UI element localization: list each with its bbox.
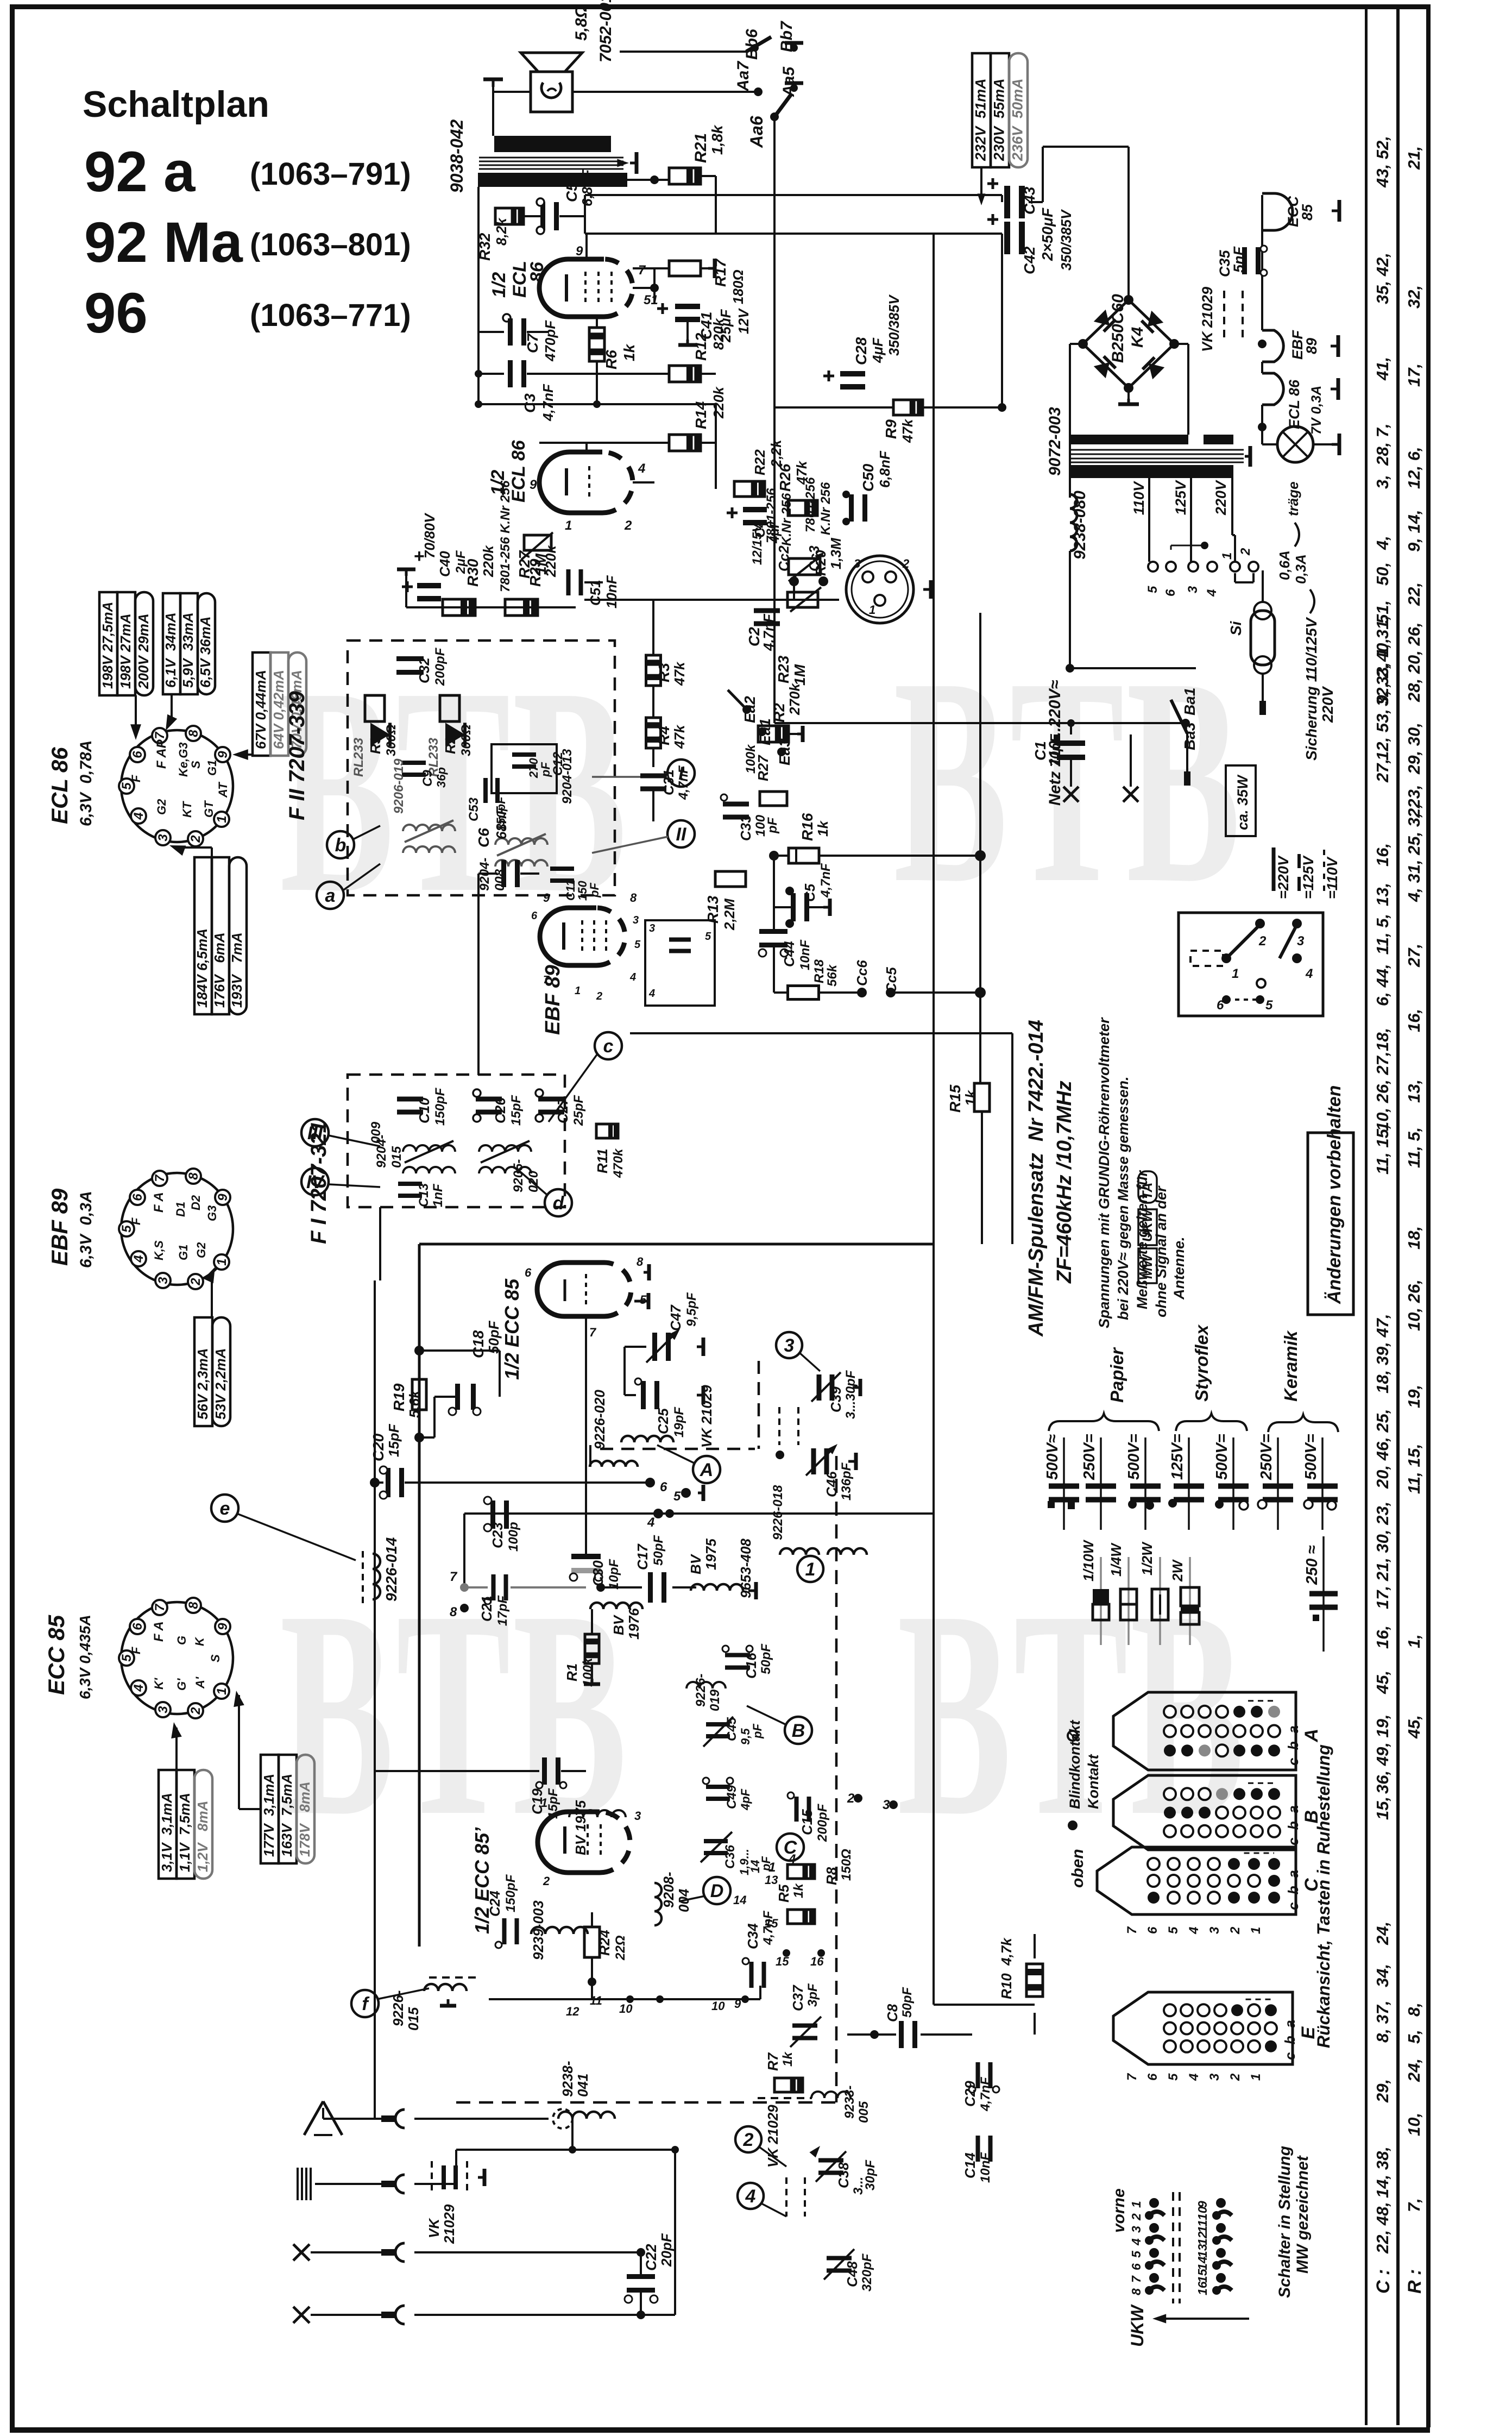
svg-text:=110V: =110V xyxy=(1324,856,1340,899)
svg-text:9: 9 xyxy=(530,478,537,492)
svg-text:11: 11 xyxy=(1195,2220,1209,2233)
svg-text:C :: C : xyxy=(1373,2269,1394,2294)
svg-text:250V=: 250V= xyxy=(1258,1434,1275,1480)
svg-text:41,: 41, xyxy=(1373,357,1392,381)
svg-text:F II 7207-339: F II 7207-339 xyxy=(285,690,309,820)
svg-text:45,: 45, xyxy=(1373,1671,1392,1694)
svg-text:5: 5 xyxy=(1166,1926,1181,1934)
svg-text:11, 15,: 11, 15, xyxy=(1404,1443,1423,1494)
svg-text:5,9V 33mA: 5,9V 33mA xyxy=(180,612,196,688)
svg-text:R3: R3 xyxy=(656,663,672,682)
svg-text:1,8k: 1,8k xyxy=(709,124,726,155)
svg-text:F: F xyxy=(129,1217,143,1225)
svg-text:C3: C3 xyxy=(521,393,538,413)
svg-text:R1: R1 xyxy=(564,1663,580,1681)
svg-text:7801-256 K.Nr 256: 7801-256 K.Nr 256 xyxy=(498,480,513,592)
svg-text:2: 2 xyxy=(188,1707,203,1715)
svg-text:150pF: 150pF xyxy=(503,1874,518,1912)
svg-text:R16: R16 xyxy=(799,813,816,841)
svg-text:7: 7 xyxy=(153,1603,167,1611)
svg-text:e: e xyxy=(220,1498,230,1519)
svg-text:C34: C34 xyxy=(745,1923,761,1949)
svg-text:22Ω: 22Ω xyxy=(613,1935,628,1961)
svg-text:1: 1 xyxy=(1249,2074,1263,2081)
svg-text:C10: C10 xyxy=(416,1097,432,1123)
svg-text:1k: 1k xyxy=(962,1090,979,1106)
svg-text:Spannungen mit GRUNDIG-Röhrenv: Spannungen mit GRUNDIG-Röhrenvoltmeter xyxy=(1096,1017,1112,1328)
svg-text:C52: C52 xyxy=(563,174,580,202)
svg-text:12, 6,: 12, 6, xyxy=(1404,447,1423,489)
svg-text:22, 48,: 22, 48, xyxy=(1373,2202,1392,2254)
svg-text:2×50μF: 2×50μF xyxy=(1039,208,1056,261)
svg-text:5: 5 xyxy=(1145,586,1160,593)
svg-text:S: S xyxy=(189,761,203,769)
svg-text:5,6k: 5,6k xyxy=(406,1390,423,1418)
svg-text:C24: C24 xyxy=(487,1891,503,1917)
svg-text:BV: BV xyxy=(610,1614,627,1635)
svg-text:34,: 34, xyxy=(1373,1964,1392,1987)
svg-text:C53: C53 xyxy=(467,797,481,821)
svg-text:8: 8 xyxy=(450,1605,457,1619)
svg-text:R14: R14 xyxy=(692,401,709,429)
svg-text:4,: 4, xyxy=(1373,536,1392,550)
svg-text:6: 6 xyxy=(660,1480,667,1495)
svg-text:9206-019: 9206-019 xyxy=(392,758,406,814)
svg-text:1M: 1M xyxy=(791,664,808,686)
svg-text:86: 86 xyxy=(527,261,547,282)
svg-text:C51: C51 xyxy=(587,580,603,606)
svg-text:18, 39, 47,: 18, 39, 47, xyxy=(1373,1314,1392,1393)
svg-text:2,2k: 2,2k xyxy=(768,439,784,468)
svg-text:18,: 18, xyxy=(1373,1028,1392,1051)
svg-text:6,8nF: 6,8nF xyxy=(579,169,595,206)
svg-text:1976: 1976 xyxy=(626,1608,642,1640)
svg-text:R21: R21 xyxy=(692,133,710,163)
svg-text:2,2M: 2,2M xyxy=(721,898,738,931)
svg-text:20, 46, 25,: 20, 46, 25, xyxy=(1373,1409,1392,1489)
svg-text:3: 3 xyxy=(854,557,860,570)
svg-text:A: A xyxy=(1301,1729,1322,1743)
svg-text:177V 3,1mA: 177V 3,1mA xyxy=(261,1774,277,1857)
svg-text:1: 1 xyxy=(1232,966,1239,981)
svg-text:G: G xyxy=(175,1636,188,1645)
svg-text:24,: 24, xyxy=(1373,1922,1392,1945)
svg-text:f: f xyxy=(362,1994,370,2014)
svg-text:10nF: 10nF xyxy=(798,939,812,970)
svg-text:470pF: 470pF xyxy=(542,320,558,362)
svg-text:GT: GT xyxy=(202,800,216,818)
svg-text:IV: IV xyxy=(306,1172,325,1192)
svg-text:500V≈: 500V≈ xyxy=(1044,1434,1061,1480)
svg-text:1,2V 8mA: 1,2V 8mA xyxy=(194,1800,211,1872)
svg-text:G1: G1 xyxy=(205,760,219,776)
svg-text:92 a: 92 a xyxy=(84,140,196,204)
svg-text:AM/FM-Spulensatz Nr 7422.-014: AM/FM-Spulensatz Nr 7422.-014 xyxy=(1025,1020,1048,1337)
svg-text:F A: F A xyxy=(152,1192,166,1213)
svg-text:9,5pF: 9,5pF xyxy=(684,1292,699,1327)
svg-text:pF: pF xyxy=(765,817,780,834)
svg-text:b: b xyxy=(335,835,346,856)
svg-text:3: 3 xyxy=(1207,1926,1222,1934)
svg-text:C32: C32 xyxy=(416,657,432,683)
svg-text:7: 7 xyxy=(1125,1926,1139,1934)
svg-text:5: 5 xyxy=(634,939,641,951)
svg-text:4: 4 xyxy=(131,1684,146,1692)
svg-text:1: 1 xyxy=(215,815,229,823)
svg-text:9238-080: 9238-080 xyxy=(1071,491,1089,560)
svg-text:3: 3 xyxy=(634,1809,641,1823)
svg-text:Cc6: Cc6 xyxy=(854,960,870,986)
svg-text:10nF: 10nF xyxy=(603,575,620,608)
svg-text:16,: 16, xyxy=(1373,843,1392,867)
svg-text:Aa5: Aa5 xyxy=(780,66,798,97)
svg-text:35, 42,: 35, 42, xyxy=(1373,253,1392,304)
svg-text:A: A xyxy=(700,1460,714,1480)
svg-text:250V=: 250V= xyxy=(1081,1434,1098,1480)
svg-text:7: 7 xyxy=(153,1174,167,1182)
svg-text:8: 8 xyxy=(186,730,201,737)
svg-text:4,7nF: 4,7nF xyxy=(676,765,691,800)
svg-text:12/15V: 12/15V xyxy=(750,523,765,565)
svg-text:193V 7mA: 193V 7mA xyxy=(229,932,245,1008)
svg-text:3: 3 xyxy=(156,1277,171,1284)
svg-text:K: K xyxy=(193,1636,206,1646)
svg-text:14: 14 xyxy=(1195,2256,1209,2270)
svg-text:21029: 21029 xyxy=(441,2204,457,2244)
svg-text:C43: C43 xyxy=(1021,186,1038,215)
svg-text:6: 6 xyxy=(531,910,538,922)
svg-text:7: 7 xyxy=(1129,2275,1143,2283)
svg-text:9226-014: 9226-014 xyxy=(383,1537,400,1602)
svg-text:3...30pF: 3...30pF xyxy=(843,1370,858,1419)
svg-text:3: 3 xyxy=(633,914,639,926)
svg-text:9239-003: 9239-003 xyxy=(530,1900,546,1960)
svg-text:B250C60: B250C60 xyxy=(1109,294,1127,363)
svg-text:1975: 1975 xyxy=(703,1539,719,1570)
svg-text:136pF: 136pF xyxy=(839,1462,854,1500)
svg-text:220k: 220k xyxy=(543,545,559,577)
svg-text:12, 53, 9, 33, 1, 31,: 12, 53, 9, 33, 1, 31, xyxy=(1373,616,1392,761)
svg-text:C18: C18 xyxy=(470,1330,487,1358)
svg-text:Cc2: Cc2 xyxy=(776,545,792,572)
svg-text:96: 96 xyxy=(84,281,148,345)
svg-text:R18: R18 xyxy=(812,959,827,983)
svg-text:C40: C40 xyxy=(437,551,453,577)
svg-text:1,: 1, xyxy=(1404,1634,1423,1648)
svg-text:Rückansicht, Tasten in Ruheste: Rückansicht, Tasten in Ruhestellung xyxy=(1314,1744,1333,2048)
svg-text:2: 2 xyxy=(1228,1926,1243,1935)
svg-text:II: II xyxy=(676,824,687,845)
svg-text:R29: R29 xyxy=(527,558,544,587)
svg-text:17pF: 17pF xyxy=(495,1595,510,1626)
svg-text:C23: C23 xyxy=(489,1522,506,1548)
svg-text:500V=: 500V= xyxy=(1302,1434,1320,1480)
svg-text:(1063–771): (1063–771) xyxy=(250,298,411,333)
svg-text:015: 015 xyxy=(405,2007,421,2031)
svg-text:6,1V 34mA: 6,1V 34mA xyxy=(162,612,179,688)
svg-text:ohne Signal an der: ohne Signal an der xyxy=(1153,1185,1169,1317)
svg-text:178V 8mA: 178V 8mA xyxy=(297,1781,313,1857)
svg-text:10nF: 10nF xyxy=(978,2152,993,2183)
svg-text:3: 3 xyxy=(1297,934,1305,949)
svg-text:125V=: 125V= xyxy=(1169,1434,1186,1480)
svg-text:3: 3 xyxy=(1186,586,1200,593)
svg-text:2: 2 xyxy=(1258,934,1267,949)
svg-text:=220V: =220V xyxy=(1275,855,1291,899)
svg-text:VK 21029: VK 21029 xyxy=(698,1385,715,1448)
svg-text:5: 5 xyxy=(705,931,711,943)
svg-text:C48: C48 xyxy=(844,2261,860,2287)
svg-text:041: 041 xyxy=(575,2074,591,2097)
svg-text:7,: 7, xyxy=(1404,2198,1423,2212)
svg-text:A': A' xyxy=(193,1677,207,1689)
svg-text:10, 26,: 10, 26, xyxy=(1404,1279,1423,1331)
svg-text:47k: 47k xyxy=(793,460,810,485)
svg-text:0,3A: 0,3A xyxy=(1293,554,1309,584)
svg-text:BV 1975: BV 1975 xyxy=(572,1800,589,1855)
svg-text:150Ω: 150Ω xyxy=(839,1849,854,1881)
svg-text:c b a: c b a xyxy=(1285,1725,1301,1766)
svg-text:3: 3 xyxy=(156,1706,171,1713)
svg-text:6: 6 xyxy=(1163,589,1178,597)
svg-text:C37: C37 xyxy=(790,1985,806,2011)
svg-text:13: 13 xyxy=(1195,2244,1209,2258)
svg-text:9: 9 xyxy=(216,1623,230,1630)
svg-text:7V 0,3A: 7V 0,3A xyxy=(1309,386,1324,435)
svg-text:4: 4 xyxy=(638,461,645,476)
svg-text:C20: C20 xyxy=(370,1433,387,1461)
svg-text:11, 15,: 11, 15, xyxy=(1373,1124,1392,1175)
svg-text:8,: 8, xyxy=(1404,2002,1423,2017)
svg-text:VK 21029: VK 21029 xyxy=(765,2105,781,2168)
svg-text:220V: 220V xyxy=(1319,686,1336,723)
svg-text:51: 51 xyxy=(644,293,658,307)
svg-text:200pF: 200pF xyxy=(433,647,448,686)
svg-text:4: 4 xyxy=(1205,589,1219,597)
svg-text:4: 4 xyxy=(1129,2238,1143,2246)
svg-text:BV: BV xyxy=(688,1553,704,1574)
svg-text:R17: R17 xyxy=(712,258,729,287)
svg-text:5: 5 xyxy=(1166,2073,1181,2081)
svg-text:250 ≈: 250 ≈ xyxy=(1303,1546,1321,1585)
svg-text:4,7nF: 4,7nF xyxy=(540,384,556,422)
svg-text:12: 12 xyxy=(566,2005,579,2018)
svg-text:7: 7 xyxy=(638,263,646,278)
svg-text:1: 1 xyxy=(1249,1927,1263,1934)
svg-text:R27: R27 xyxy=(755,755,771,781)
svg-text:6,3V 0,3A: 6,3V 0,3A xyxy=(77,1191,95,1268)
svg-text:G2: G2 xyxy=(194,1242,208,1258)
svg-text:R2: R2 xyxy=(771,703,787,723)
svg-text:13: 13 xyxy=(765,1873,778,1887)
svg-text:C7: C7 xyxy=(524,333,541,353)
svg-text:C1: C1 xyxy=(1032,741,1049,761)
svg-text:14, 38,: 14, 38, xyxy=(1373,2146,1392,2198)
svg-text:36, 49, 19,: 36, 49, 19, xyxy=(1373,1714,1392,1794)
svg-text:(1063–801): (1063–801) xyxy=(250,227,411,262)
svg-text:2: 2 xyxy=(188,1278,203,1286)
svg-text:K': K' xyxy=(152,1678,166,1690)
svg-text:8: 8 xyxy=(1129,2288,1143,2295)
svg-text:47k: 47k xyxy=(671,724,688,749)
svg-text:9: 9 xyxy=(734,1997,741,2011)
svg-text:Si: Si xyxy=(1227,620,1244,636)
svg-text:pF: pF xyxy=(588,883,601,898)
svg-text:8: 8 xyxy=(186,1172,201,1180)
svg-text:21,: 21, xyxy=(1404,146,1423,170)
svg-text:7: 7 xyxy=(1125,2073,1139,2081)
svg-text:1/2 ECC 85: 1/2 ECC 85 xyxy=(501,1278,523,1380)
svg-text:2: 2 xyxy=(1238,548,1253,556)
svg-text:27,: 27, xyxy=(1373,759,1392,783)
svg-text:220k: 220k xyxy=(480,545,496,577)
svg-text:020: 020 xyxy=(526,1170,541,1192)
svg-text:D2: D2 xyxy=(189,1195,203,1210)
svg-text:150pF: 150pF xyxy=(433,1087,448,1126)
svg-text:92 Ma: 92 Ma xyxy=(84,211,243,274)
svg-text:4μF: 4μF xyxy=(870,337,886,363)
svg-text:5: 5 xyxy=(1129,2250,1143,2258)
svg-text:8: 8 xyxy=(637,1255,644,1269)
svg-text:25pF: 25pF xyxy=(571,1095,586,1126)
svg-text:019: 019 xyxy=(708,1689,722,1711)
svg-text:32,: 32, xyxy=(1404,285,1423,309)
svg-text:24,: 24, xyxy=(1404,2058,1423,2082)
svg-text:6: 6 xyxy=(1145,1926,1160,1934)
svg-text:45,: 45, xyxy=(1404,1715,1423,1739)
svg-text:4: 4 xyxy=(131,1255,146,1263)
svg-text:Schaltplan: Schaltplan xyxy=(83,84,269,125)
svg-text:22,: 22, xyxy=(1404,582,1423,606)
svg-text:12: 12 xyxy=(1195,2231,1209,2245)
svg-text:1/2 ECC 85’: 1/2 ECC 85’ xyxy=(471,1827,493,1934)
svg-text:Aa6: Aa6 xyxy=(747,116,766,148)
svg-text:180Ω: 180Ω xyxy=(730,269,746,304)
svg-text:pF: pF xyxy=(751,1724,764,1739)
svg-text:1k: 1k xyxy=(815,820,831,837)
svg-text:005: 005 xyxy=(856,2101,871,2123)
svg-text:C6: C6 xyxy=(475,828,492,847)
svg-text:R7: R7 xyxy=(765,2052,781,2071)
svg-text:100p: 100p xyxy=(506,1522,521,1552)
svg-text:C45: C45 xyxy=(724,1717,739,1741)
svg-text:S: S xyxy=(209,1654,222,1662)
svg-text:43, 52,: 43, 52, xyxy=(1373,136,1392,188)
svg-text:2: 2 xyxy=(1228,2073,1243,2081)
svg-text:4, 31, 25, 3, 23,: 4, 31, 25, 3, 23, xyxy=(1404,785,1423,902)
svg-text:C42: C42 xyxy=(1021,246,1038,274)
svg-text:10: 10 xyxy=(619,2002,633,2016)
svg-text:G2: G2 xyxy=(155,799,168,815)
svg-text:R30: R30 xyxy=(464,558,481,587)
svg-text:6, 44, 11, 5,: 6, 44, 11, 5, xyxy=(1373,914,1392,1006)
svg-text:Papier: Papier xyxy=(1107,1347,1127,1403)
svg-text:C30: C30 xyxy=(590,1560,606,1586)
svg-text:110V: 110V xyxy=(1131,481,1147,515)
svg-text:4,7nF: 4,7nF xyxy=(818,863,833,898)
svg-text:2: 2 xyxy=(543,1874,550,1888)
svg-text:3,1V 3,1mA: 3,1V 3,1mA xyxy=(159,1793,175,1872)
svg-text:R5: R5 xyxy=(776,1884,792,1903)
svg-text:C49: C49 xyxy=(724,1785,739,1809)
svg-text:K4: K4 xyxy=(1129,327,1146,348)
svg-text:9, 14,: 9, 14, xyxy=(1404,510,1423,552)
svg-text:MW gezeichnet: MW gezeichnet xyxy=(1294,2155,1312,2274)
svg-text:1: 1 xyxy=(1129,2201,1143,2208)
svg-text:11, 5,: 11, 5, xyxy=(1404,1127,1423,1168)
svg-text:9226-: 9226- xyxy=(694,1674,708,1707)
svg-text:ECL 86: ECL 86 xyxy=(1286,379,1302,429)
svg-text:Bb6: Bb6 xyxy=(743,29,761,60)
svg-text:6: 6 xyxy=(130,1194,145,1201)
svg-text:C5: C5 xyxy=(802,883,818,902)
svg-text:C21: C21 xyxy=(478,1596,495,1622)
svg-text:C39: C39 xyxy=(828,1386,844,1412)
svg-text:17,: 17, xyxy=(1404,363,1423,387)
svg-text:89: 89 xyxy=(1303,338,1320,354)
svg-text:28, 20, 26,: 28, 20, 26, xyxy=(1404,622,1423,702)
svg-text:56k: 56k xyxy=(825,964,840,987)
svg-text:16,: 16, xyxy=(1373,1625,1392,1649)
svg-text:1: 1 xyxy=(215,1687,229,1694)
svg-text:1: 1 xyxy=(541,1796,547,1810)
svg-text:C31: C31 xyxy=(660,769,677,795)
svg-text:6: 6 xyxy=(130,1623,145,1630)
svg-text:B: B xyxy=(792,1721,805,1741)
svg-text:19pF: 19pF xyxy=(672,1407,686,1437)
svg-text:50pF: 50pF xyxy=(759,1643,773,1674)
svg-text:350/385V: 350/385V xyxy=(1058,209,1074,271)
svg-text:200pF: 200pF xyxy=(815,1803,830,1842)
svg-text:ECC 85: ECC 85 xyxy=(43,1615,69,1695)
svg-text:F AP: F AP xyxy=(154,739,169,769)
svg-text:500V=: 500V= xyxy=(1125,1434,1143,1480)
svg-text:Cc3: Cc3 xyxy=(806,545,822,572)
svg-text:C29: C29 xyxy=(962,2081,978,2107)
svg-text:1/10W: 1/10W xyxy=(1080,1539,1097,1581)
svg-text:Ba3: Ba3 xyxy=(1181,722,1198,750)
svg-text:oben: oben xyxy=(1069,1849,1087,1888)
svg-text:16: 16 xyxy=(1195,2281,1209,2295)
svg-text:50,: 50, xyxy=(1373,562,1392,586)
svg-text:c: c xyxy=(603,1036,614,1057)
svg-text:19,: 19, xyxy=(1404,1385,1423,1408)
svg-text:220V: 220V xyxy=(1213,480,1229,516)
svg-text:R26: R26 xyxy=(777,463,793,492)
svg-text:270k: 270k xyxy=(786,683,803,715)
svg-text:6,8nF: 6,8nF xyxy=(877,450,893,488)
svg-text:232V 51mA: 232V 51mA xyxy=(972,78,988,161)
svg-text:R10 4,7k: R10 4,7k xyxy=(998,1937,1015,1999)
svg-text:2: 2 xyxy=(624,518,632,533)
svg-text:13,: 13, xyxy=(1373,883,1392,906)
svg-text:C22: C22 xyxy=(643,2244,659,2271)
svg-text:VK 21029: VK 21029 xyxy=(1199,287,1215,352)
svg-text:18,: 18, xyxy=(1404,1226,1423,1250)
svg-text:6,3V 0,435A: 6,3V 0,435A xyxy=(77,1615,93,1699)
svg-text:4: 4 xyxy=(647,1515,654,1530)
svg-text:K.Nr 256: K.Nr 256 xyxy=(818,482,833,535)
svg-text:III: III xyxy=(307,1123,324,1144)
svg-text:5: 5 xyxy=(119,1654,134,1662)
svg-text:R13: R13 xyxy=(704,895,721,924)
svg-text:176V 6mA: 176V 6mA xyxy=(211,932,228,1008)
svg-text:6: 6 xyxy=(1217,998,1224,1013)
svg-text:47k: 47k xyxy=(899,418,916,443)
svg-text:7: 7 xyxy=(543,974,550,986)
svg-text:C8: C8 xyxy=(884,2004,900,2022)
svg-text:6: 6 xyxy=(1145,2073,1160,2081)
